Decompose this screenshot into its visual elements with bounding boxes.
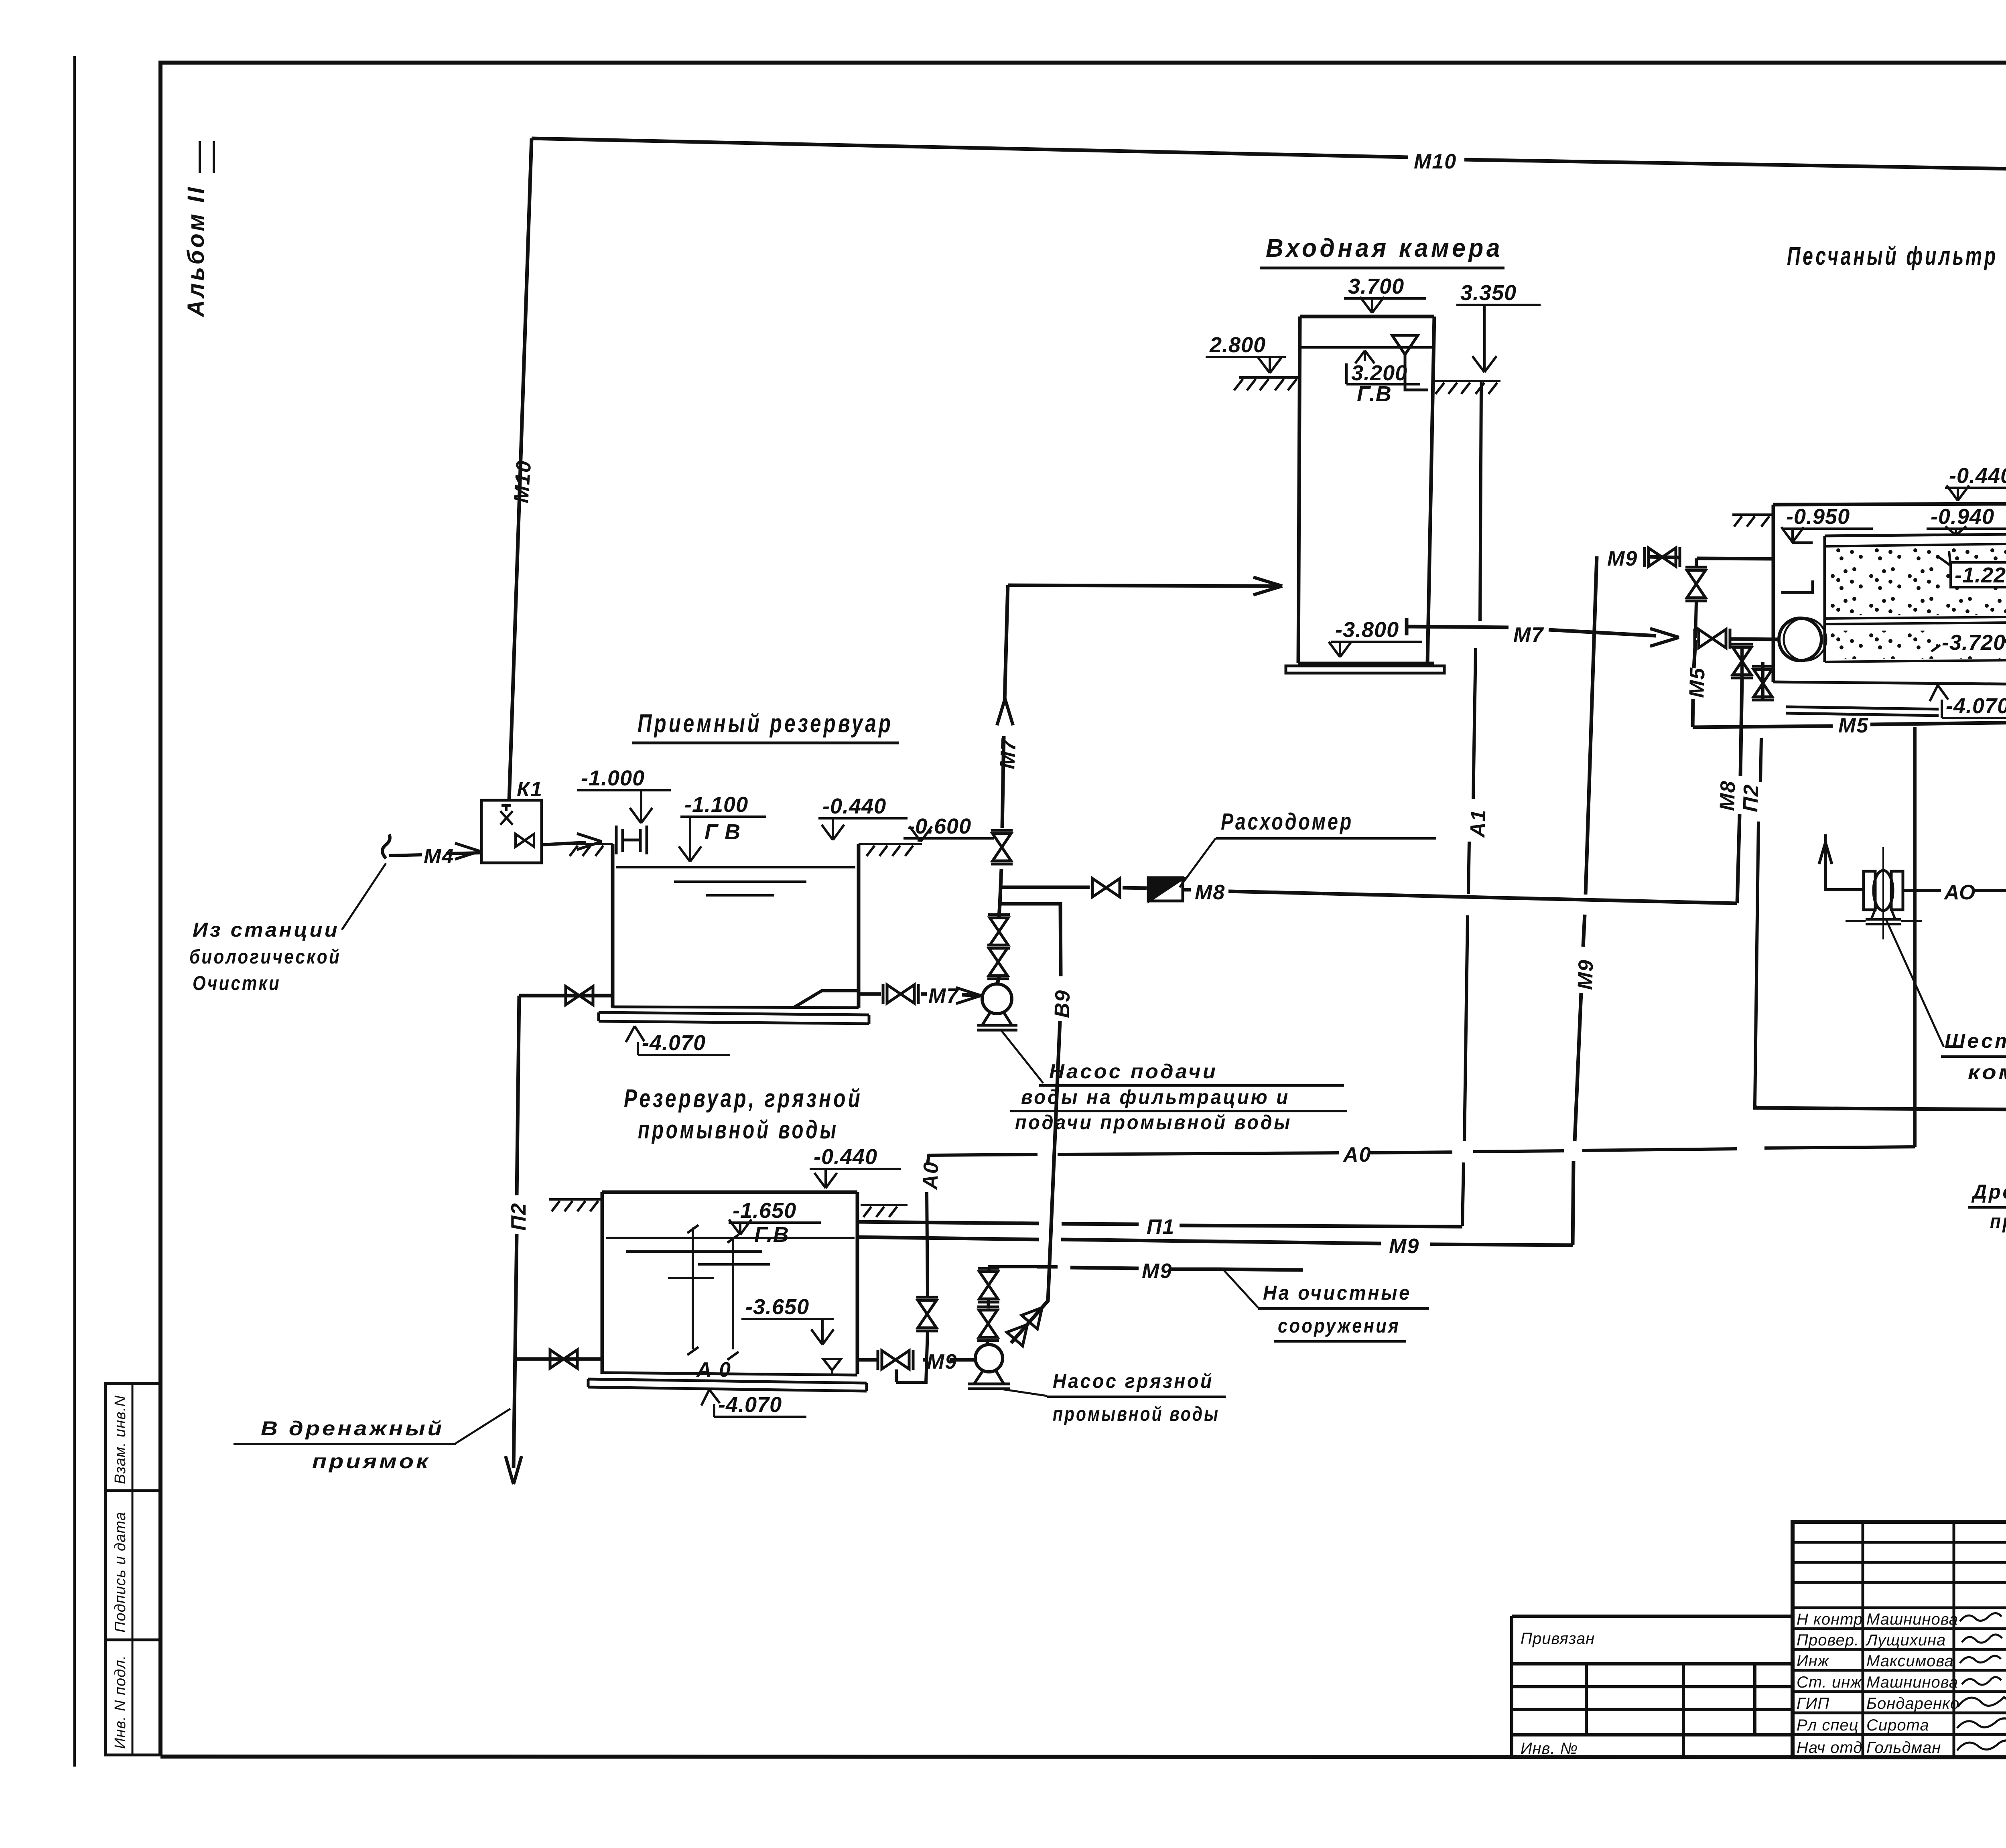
svg-text:Песчаный фильтр: Песчаный фильтр bbox=[1787, 241, 1998, 270]
svg-text:приямок: приямок bbox=[1990, 1210, 2006, 1233]
svg-text:Дренажный: Дренажный bbox=[1971, 1181, 2006, 1203]
svg-text:-1.100: -1.100 bbox=[684, 793, 748, 817]
ground left of wash tank bbox=[549, 1199, 602, 1211]
inner dimension lines bbox=[687, 1225, 739, 1360]
tank outlet slant riser bbox=[794, 991, 859, 1008]
svg-text:-3.720: -3.720 bbox=[1942, 631, 2006, 655]
ground left of tank bbox=[569, 844, 613, 856]
svg-text:Н контр: Н контр bbox=[1797, 1611, 1863, 1628]
title block columns left section bbox=[1863, 1522, 2006, 1757]
pipe M9 wash out line bbox=[1573, 556, 1773, 1245]
compressor suction bbox=[1825, 846, 1865, 890]
receiving tank walls bbox=[613, 844, 859, 1008]
svg-text:Гольдман: Гольдман bbox=[1866, 1739, 1941, 1757]
svg-text:сооружения: сооружения bbox=[1278, 1314, 1400, 1337]
svg-text:Провер.: Провер. bbox=[1797, 1631, 1859, 1649]
pipe M7 into distributor bbox=[1730, 639, 1779, 639]
valve gate on wash drain bbox=[550, 1350, 577, 1368]
svg-text:-3.650: -3.650 bbox=[745, 1295, 809, 1319]
svg-text:подачи промывной воды: подачи промывной воды bbox=[1015, 1111, 1292, 1134]
compressor discharge AO bbox=[1902, 722, 2006, 891]
svg-text:Очистки: Очистки bbox=[193, 972, 281, 994]
pointer compressor text bbox=[1886, 919, 1944, 1047]
svg-text:-1.220: -1.220 bbox=[1955, 563, 2006, 587]
svg-text:Инв. №: Инв. № bbox=[1521, 1740, 1578, 1757]
inlet chamber bottom slab bbox=[1286, 663, 1444, 673]
svg-text:А0: А0 bbox=[1342, 1143, 1371, 1166]
svg-text:В дренажный: В дренажный bbox=[261, 1417, 444, 1440]
pipe M7 inlet to chamber bbox=[1008, 585, 1278, 586]
svg-text:-0.950: -0.950 bbox=[1786, 505, 1850, 529]
svg-text:Лущихина: Лущихина bbox=[1865, 1631, 1946, 1649]
margin box column bbox=[106, 1383, 161, 1755]
ground right of wash tank bbox=[861, 1205, 908, 1217]
svg-text:На очистные: На очистные bbox=[1263, 1282, 1411, 1304]
valve screw on bypass bbox=[1685, 567, 1707, 601]
pipe P2 run to pit bbox=[1755, 1105, 2006, 1139]
pipe M7 outlet of chamber bbox=[1407, 618, 1656, 636]
svg-text:компрессор: компрессор bbox=[1968, 1061, 2006, 1083]
funnel inside tank bbox=[823, 1359, 841, 1374]
pipe P2 drop line bbox=[514, 996, 519, 1468]
paper edge left bbox=[73, 56, 76, 1767]
pipe M10 riser bbox=[509, 138, 532, 800]
svg-text:воды на фильтрацию и: воды на фильтрацию и bbox=[1021, 1086, 1290, 1108]
filter outer walls bbox=[1773, 504, 2006, 682]
valve gate flanged wash outlet bbox=[878, 1350, 913, 1370]
svg-text:А0: А0 bbox=[919, 1161, 943, 1191]
check valve on B9 diagonal bbox=[1007, 1301, 1050, 1346]
wash water tank walls bbox=[602, 1192, 857, 1374]
pipe M9 wash outlet bbox=[857, 1358, 975, 1362]
compressor centerline bbox=[1882, 847, 1884, 939]
sand layer 1 bounds bbox=[1825, 544, 2006, 624]
svg-text:Из станции: Из станции bbox=[193, 919, 339, 941]
svg-text:М7: М7 bbox=[1513, 623, 1544, 647]
svg-text:Инж: Инж bbox=[1797, 1652, 1829, 1670]
svg-text:П2: П2 bbox=[1739, 783, 1763, 812]
svg-text:Насос подачи: Насос подачи bbox=[1049, 1060, 1218, 1083]
svg-text:-4.070: -4.070 bbox=[718, 1393, 782, 1417]
svg-text:3.700: 3.700 bbox=[1348, 274, 1404, 298]
arrow M7 riser up bbox=[997, 699, 1013, 725]
svg-text:М4: М4 bbox=[424, 845, 454, 868]
label -1.220 boxed bbox=[1951, 562, 2006, 587]
svg-text:-0.940: -0.940 bbox=[1931, 505, 1994, 529]
pipe drain left with valve bbox=[519, 994, 613, 998]
svg-text:Резервуар, грязной: Резервуар, грязной bbox=[624, 1084, 863, 1113]
tank water level bbox=[616, 867, 855, 895]
svg-text:Машнинова: Машнинова bbox=[1866, 1611, 1958, 1628]
svg-text:Расходомер: Расходомер bbox=[1221, 809, 1353, 835]
pipe M7 suction bbox=[859, 994, 982, 996]
ground step right of chamber bbox=[1480, 381, 1483, 387]
svg-text:3.200: 3.200 bbox=[1351, 361, 1407, 385]
svg-text:М10: М10 bbox=[1414, 150, 1457, 173]
pipe AO long run bbox=[896, 727, 1915, 1382]
ground right of inlet chamber bbox=[1434, 381, 1500, 394]
pointer to M4 bbox=[342, 863, 386, 930]
arrow M7 into chamber bbox=[1253, 577, 1282, 595]
pipe M7 riser from pump bbox=[997, 585, 1008, 984]
ground right of tank bbox=[859, 844, 922, 856]
svg-text:М8: М8 bbox=[1716, 780, 1740, 811]
svg-text:-0.440: -0.440 bbox=[1949, 464, 2006, 488]
valve gate on AO left riser bbox=[916, 1297, 938, 1331]
sand layer 2 bounds bbox=[1825, 660, 2006, 662]
ground left of filter bbox=[1732, 515, 1773, 527]
svg-text:Ст. инж: Ст. инж bbox=[1797, 1674, 1862, 1691]
pointer M9 end to text bbox=[1224, 1270, 1258, 1308]
pipe M5 filter drain branch bbox=[1693, 640, 1695, 727]
svg-text:М9: М9 bbox=[1607, 547, 1638, 570]
svg-text:Максимова: Максимова bbox=[1866, 1652, 1954, 1670]
pointer to flow meter bbox=[1180, 838, 1216, 887]
title block rows left section bbox=[1793, 1542, 2006, 1734]
svg-text:К1: К1 bbox=[517, 778, 543, 801]
signatures bbox=[1960, 1613, 2002, 1621]
attach table bbox=[1512, 1616, 1793, 1757]
svg-text:П1: П1 bbox=[1147, 1215, 1175, 1239]
filter bottom slab bbox=[1773, 682, 2006, 717]
svg-text:Входная камера: Входная камера bbox=[1266, 233, 1503, 262]
svg-text:А1: А1 bbox=[1466, 809, 1490, 838]
valve gate in K1 bbox=[516, 834, 534, 847]
arrow M4 into K1 bbox=[455, 843, 480, 859]
arrow P2 down bbox=[506, 1456, 522, 1484]
flow meter device M8 bbox=[1148, 878, 1183, 901]
pipe M4 inlet bbox=[382, 834, 586, 858]
svg-text:приямок: приямок bbox=[312, 1450, 430, 1473]
svg-text:3.350: 3.350 bbox=[1460, 281, 1517, 305]
svg-text:Альбом II: Альбом II bbox=[183, 185, 209, 318]
svg-text:-4.070: -4.070 bbox=[642, 1031, 706, 1055]
filter inner box bbox=[1781, 534, 2006, 662]
svg-text:М9: М9 bbox=[1574, 959, 1598, 990]
svg-text:М8: М8 bbox=[1195, 881, 1225, 904]
svg-text:-3.800: -3.800 bbox=[1335, 618, 1399, 642]
valve screw on M7 riser bbox=[991, 830, 1013, 864]
arrow M7 to filter bbox=[1650, 629, 1679, 646]
pipe M9 return to tank bbox=[858, 1237, 1573, 1245]
sand layer 2 bbox=[1829, 631, 2006, 659]
title underline bbox=[1260, 267, 1504, 270]
pipe P1 overflow bbox=[857, 1222, 1462, 1227]
title underline bbox=[632, 742, 899, 744]
ground left of inlet chamber bbox=[1234, 377, 1300, 390]
receiving tank floor bbox=[599, 1007, 869, 1024]
inlet chamber weir funnel bbox=[1392, 335, 1428, 390]
wash water tank floor bbox=[588, 1373, 867, 1391]
svg-text:Инв. N подл.: Инв. N подл. bbox=[112, 1655, 129, 1749]
pointer pump N2 to text bbox=[999, 1389, 1047, 1396]
pipe B9 branch bbox=[1001, 904, 1061, 1343]
svg-text:биологической: биологической bbox=[189, 945, 341, 968]
distributor pipe circle bbox=[1779, 618, 1821, 661]
valve gate flanged on M9 bbox=[1645, 547, 1680, 567]
svg-text:Приемный резервуар: Приемный резервуар bbox=[638, 709, 893, 738]
svg-text:Шестеренчатый: Шестеренчатый bbox=[1945, 1030, 2006, 1052]
pipe M8 riser to filter bbox=[1737, 679, 1742, 903]
svg-text:М5: М5 bbox=[1685, 667, 1710, 698]
svg-text:М9: М9 bbox=[1389, 1235, 1419, 1258]
label -0.940 underlay bbox=[1924, 506, 2006, 531]
compressor body bbox=[1864, 871, 1903, 910]
arrow M4 into tank bbox=[577, 834, 602, 850]
valves above pump N2 bbox=[988, 1267, 1037, 1345]
bypass stub M9 to M7 bbox=[1695, 558, 1696, 638]
valve gate on left drain bbox=[566, 986, 593, 1005]
pump N1 base bbox=[977, 1012, 1017, 1030]
chamber K1 box bbox=[481, 800, 542, 863]
sand layer 1 bbox=[1829, 548, 2006, 615]
svg-text:Рл спец: Рл спец bbox=[1797, 1716, 1858, 1734]
pointer to P2 drop bbox=[456, 1409, 510, 1443]
svg-text:М9: М9 bbox=[1142, 1260, 1172, 1283]
pipe drain left wash tank bbox=[516, 1357, 602, 1361]
valve gate flanged M7 suction bbox=[883, 984, 918, 1004]
svg-text:Сирота: Сирота bbox=[1866, 1716, 1929, 1734]
arrow M7 to pump bbox=[956, 988, 981, 1004]
svg-text:-4.070: -4.070 bbox=[1946, 694, 2006, 718]
album numeral underline bbox=[199, 141, 201, 173]
svg-text:-0.440: -0.440 bbox=[822, 794, 886, 818]
inlet chamber water level bbox=[1301, 346, 1433, 349]
svg-text:Привязан: Привязан bbox=[1521, 1630, 1595, 1647]
svg-text:А 0: А 0 bbox=[696, 1358, 731, 1381]
svg-text:М7: М7 bbox=[996, 738, 1021, 769]
valves M8 P2 under filter bbox=[1740, 647, 1744, 679]
svg-text:промывной воды: промывной воды bbox=[1053, 1403, 1220, 1425]
svg-text:-0.440: -0.440 bbox=[814, 1145, 877, 1169]
svg-text:М7: М7 bbox=[928, 984, 959, 1008]
pump N2 circle bbox=[975, 1345, 1003, 1372]
label -3.720 underlay bbox=[1938, 631, 2004, 653]
svg-text:Насос грязной: Насос грязной bbox=[1053, 1370, 1214, 1392]
pump N2 base bbox=[968, 1371, 1010, 1389]
svg-text:М5: М5 bbox=[1838, 714, 1869, 737]
svg-text:Г.В: Г.В bbox=[1357, 382, 1392, 406]
valve screw in K1 bbox=[500, 805, 513, 825]
pipe M5 main run bbox=[1693, 722, 2006, 728]
svg-text:Бондаренко: Бондаренко bbox=[1866, 1695, 1959, 1712]
svg-text:П2: П2 bbox=[507, 1203, 530, 1231]
svg-text:М9: М9 bbox=[927, 1350, 957, 1373]
svg-text:Подпись и дата: Подпись и дата bbox=[112, 1512, 129, 1633]
title block outer bbox=[1793, 1522, 2006, 1757]
svg-text:Г.В: Г.В bbox=[754, 1223, 789, 1247]
svg-text:-1.650: -1.650 bbox=[733, 1199, 796, 1223]
pipe M8 run bbox=[1001, 887, 1737, 903]
label -4.070 filter underlay bbox=[1939, 695, 2006, 720]
svg-text:ГИП: ГИП bbox=[1797, 1695, 1829, 1712]
svg-text:АО: АО bbox=[1943, 881, 1976, 904]
pointer pump N1 to text bbox=[1001, 1030, 1043, 1083]
svg-text:Г В: Г В bbox=[705, 820, 741, 844]
wash tank water level bbox=[606, 1238, 855, 1278]
inlet chamber tank walls bbox=[1298, 316, 1434, 663]
svg-text:М10: М10 bbox=[510, 459, 536, 504]
pipe A1 drain riser bbox=[1462, 387, 1481, 1226]
tank inlet flanges bbox=[616, 826, 647, 854]
compressor base bbox=[1846, 907, 1922, 924]
svg-text:2.800: 2.800 bbox=[1209, 333, 1266, 357]
valve gate flanged M7 filter inlet bbox=[1695, 629, 1730, 649]
pipe M9 discharge run bbox=[1037, 1267, 1303, 1270]
svg-text:В9: В9 bbox=[1050, 989, 1074, 1018]
valves twin above pump N1 bbox=[988, 915, 1010, 948]
svg-text:Взам. инв.N: Взам. инв.N bbox=[112, 1395, 129, 1484]
svg-text:-1.000: -1.000 bbox=[581, 766, 645, 790]
pump N1 circle bbox=[982, 984, 1012, 1014]
svg-text:промывной воды: промывной воды bbox=[638, 1115, 839, 1144]
svg-text:Нач отд: Нач отд bbox=[1797, 1739, 1863, 1757]
pipe M10 top run bbox=[532, 138, 2006, 179]
valve gate on M8 bbox=[1092, 878, 1120, 897]
svg-text:Машнинова: Машнинова bbox=[1866, 1674, 1958, 1691]
